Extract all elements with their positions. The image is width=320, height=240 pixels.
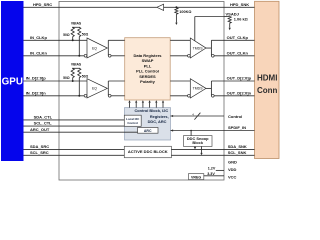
svg-text:1.06 kΩ: 1.06 kΩ: [234, 17, 248, 22]
wire to ground arrow: [229, 23, 231, 27]
wire EQ out p: [108, 80, 124, 82]
wire EQ out n: [111, 55, 125, 57]
DDC snoop block: [184, 136, 213, 147]
wire EQ output bar: [107, 81, 109, 96]
svg-text:DDC, ARC: DDC, ARC: [148, 119, 167, 124]
node snoop-SPDIF junction: [190, 130, 192, 132]
node: HPD pulldown junction: [175, 6, 177, 8]
TMDS out bubble n: [211, 54, 214, 57]
VBIAS rail bar: [72, 67, 80, 69]
svg-text:VSADJ: VSADJ: [226, 11, 239, 16]
wire input n: [24, 55, 85, 57]
chip outline: [59, 2, 224, 181]
svg-text:Control: Control: [228, 114, 242, 119]
wire to TMDS p: [170, 39, 190, 41]
resistor 50 Ohm left: [71, 27, 74, 36]
svg-text:Block: Block: [192, 140, 203, 145]
inverting input bubble: [84, 94, 87, 97]
svg-text:SPDIF_IN: SPDIF_IN: [228, 125, 246, 130]
svg-text:3.3V: 3.3V: [207, 172, 215, 176]
svg-text:OUT_CLKp: OUT_CLKp: [227, 35, 249, 40]
3.3V wire to VCC: [204, 175, 224, 177]
resistor 50 Ohm right: [78, 27, 81, 36]
svg-text:ACTIVE DDC BLOCK: ACTIVE DDC BLOCK: [128, 149, 168, 154]
wire out p: [211, 39, 254, 41]
wire to TMDS p: [170, 80, 190, 82]
wire 50 Ohm right to n line: [78, 78, 80, 96]
svg-text:50Ω: 50Ω: [63, 33, 70, 37]
wire EQ output bar: [107, 40, 109, 56]
wire TMDS output bar: [210, 40, 212, 56]
VSADJ internal wire: [195, 16, 224, 18]
svg-text:SCL_CTL: SCL_CTL: [34, 121, 53, 126]
svg-text:IN_CLKp: IN_CLKp: [30, 35, 47, 40]
wire snoop block to SPDIF line: [190, 131, 192, 136]
ground arrow (100K): [175, 23, 177, 25]
active DDC block: [124, 146, 171, 157]
svg-text:Registers,: Registers,: [150, 114, 169, 119]
svg-text:EQ: EQ: [92, 46, 97, 50]
svg-text:50Ω: 50Ω: [82, 75, 89, 79]
control block: [125, 108, 171, 140]
wire 50 Ohm left to p line: [72, 37, 74, 41]
wire arrow up x=129.5: [129, 103, 131, 108]
wire 50 Ohm right to n line: [78, 37, 80, 56]
resistor 1.06 kOhm external: [224, 16, 230, 18]
op-amp TMDS driver: [190, 79, 206, 98]
svg-text:Control: Control: [127, 121, 138, 125]
wire 50 Ohm left to p line: [72, 78, 74, 81]
wire arrow up x=149.6: [149, 103, 151, 108]
EQ out bubble n: [108, 54, 111, 57]
svg-text:50Ω: 50Ω: [63, 76, 70, 80]
wire to TMDS n: [170, 95, 187, 97]
wire SCL_CTL: [24, 125, 125, 127]
ground arrow (VSADJ): [229, 28, 231, 30]
wire SDA_SRC: [24, 148, 125, 150]
buffer on HPD (points left): [157, 4, 164, 10]
HDMI connector block: [255, 1, 280, 158]
wire arrow up x=163.0: [162, 103, 164, 108]
svg-text:EQ: EQ: [92, 87, 97, 91]
svg-text:PLL: PLL: [144, 63, 152, 68]
SPDIF wire: [171, 130, 255, 132]
svg-text:Polarity: Polarity: [140, 79, 155, 84]
local I2C control box: [124, 115, 141, 126]
svg-text:VBIAS: VBIAS: [71, 63, 82, 67]
svg-text:IN_D[2:0]n: IN_D[2:0]n: [26, 90, 47, 95]
svg-text:VREG: VREG: [191, 175, 201, 179]
node junction right: [78, 55, 80, 57]
svg-text:OUT_CLKn: OUT_CLKn: [227, 50, 249, 55]
wire snoop tap SDA: [194, 145, 196, 148]
TMDS input bubble: [188, 54, 191, 57]
svg-text:SWAP: SWAP: [142, 58, 154, 63]
svg-text:HPD_SRC: HPD_SRC: [33, 2, 52, 7]
wire input n: [24, 95, 85, 97]
op-amp EQ: [87, 38, 107, 58]
svg-text:SDA_SRC: SDA_SRC: [30, 144, 49, 149]
wire SDA_SNK: [171, 148, 254, 150]
control bus wire: [171, 115, 225, 117]
svg-text:Data Registers: Data Registers: [133, 53, 162, 58]
svg-text:VCC: VCC: [228, 174, 237, 179]
wire EQ out n: [111, 95, 125, 97]
svg-text:GND: GND: [228, 159, 237, 164]
svg-text:SDA_CTL: SDA_CTL: [34, 114, 53, 119]
svg-text:Conn: Conn: [257, 86, 278, 95]
wire apex to output bar: [206, 47, 211, 49]
wire snoop tap SCL: [201, 146, 203, 153]
wire input p: [24, 80, 88, 82]
resistor 100KOhm pulldown: [175, 8, 178, 14]
wire SDA_CTL: [24, 119, 125, 121]
svg-text:TMDS: TMDS: [193, 87, 204, 91]
wire out n: [214, 55, 254, 57]
op-amp TMDS driver: [190, 38, 206, 58]
svg-text:OUT_D[2:0]n: OUT_D[2:0]n: [227, 90, 252, 95]
svg-text:VBIAS: VBIAS: [71, 22, 82, 26]
wire HPD line right of buffer: [164, 6, 255, 8]
wire TMDS output bar: [210, 81, 212, 96]
wire arrow up x=156.3: [155, 103, 157, 108]
wire arrow up x=142.9: [142, 103, 144, 108]
TMDS input bubble: [188, 94, 191, 97]
wire input p: [24, 39, 88, 41]
wire to TMDS n: [170, 55, 187, 57]
svg-text:OUT_D[2:0]p: OUT_D[2:0]p: [227, 76, 252, 81]
GPU block: [1, 1, 24, 161]
VBIAS rail bar: [72, 26, 80, 28]
wire SCL_SRC: [24, 154, 125, 156]
svg-text:IN_D[2:0]p: IN_D[2:0]p: [26, 76, 47, 81]
svg-text:GPU: GPU: [2, 77, 23, 88]
wire apex to output bar: [206, 87, 211, 89]
data registers / PLL block U-center: [125, 38, 171, 100]
svg-text:IN_CLKn: IN_CLKn: [30, 50, 47, 55]
svg-text:ARC: ARC: [144, 129, 152, 133]
op-amp EQ: [87, 79, 107, 98]
wire SCL_SNK: [171, 154, 254, 156]
wire to ground arrow: [175, 14, 177, 22]
wire HPD line left of buffer: [24, 6, 157, 8]
svg-text:50Ω: 50Ω: [82, 32, 89, 36]
VREG box: [189, 174, 204, 180]
svg-text:SERDES: SERDES: [139, 74, 156, 79]
svg-text:ARC_OUT: ARC_OUT: [30, 127, 50, 132]
node junction left: [72, 80, 74, 82]
node junction left: [72, 39, 74, 41]
wire arrow up x=136.2: [135, 103, 137, 108]
svg-text:VDD: VDD: [228, 167, 237, 172]
svg-text:SCL_SNK: SCL_SNK: [228, 150, 247, 155]
resistor 50 Ohm left: [71, 68, 74, 77]
node junction right: [78, 95, 80, 97]
inverting input bubble: [84, 54, 87, 57]
svg-text:SDA_SNK: SDA_SNK: [228, 144, 247, 149]
wire ARC_OUT: [24, 131, 138, 133]
wire out n: [214, 95, 254, 97]
svg-text:1.2V: 1.2V: [208, 166, 216, 170]
bus slash: [194, 113, 200, 120]
ARC box: [138, 128, 159, 134]
TMDS out bubble n: [211, 94, 214, 97]
svg-text:HDMI: HDMI: [257, 73, 277, 82]
svg-text:SCL_SRC: SCL_SRC: [30, 150, 49, 155]
svg-text:PLL Control: PLL Control: [136, 69, 159, 74]
wire out p: [211, 80, 254, 82]
svg-text:100KΩ: 100KΩ: [179, 10, 191, 14]
EQ out bubble n: [108, 94, 111, 97]
wire EQ out p: [108, 39, 124, 41]
1.2V wire to VDD: [216, 169, 224, 171]
svg-text:HPD_SNK: HPD_SNK: [230, 2, 249, 7]
svg-text:TMDS: TMDS: [193, 46, 204, 50]
resistor 50 Ohm right: [78, 68, 81, 77]
svg-text:Control Block, I2C: Control Block, I2C: [135, 108, 169, 113]
